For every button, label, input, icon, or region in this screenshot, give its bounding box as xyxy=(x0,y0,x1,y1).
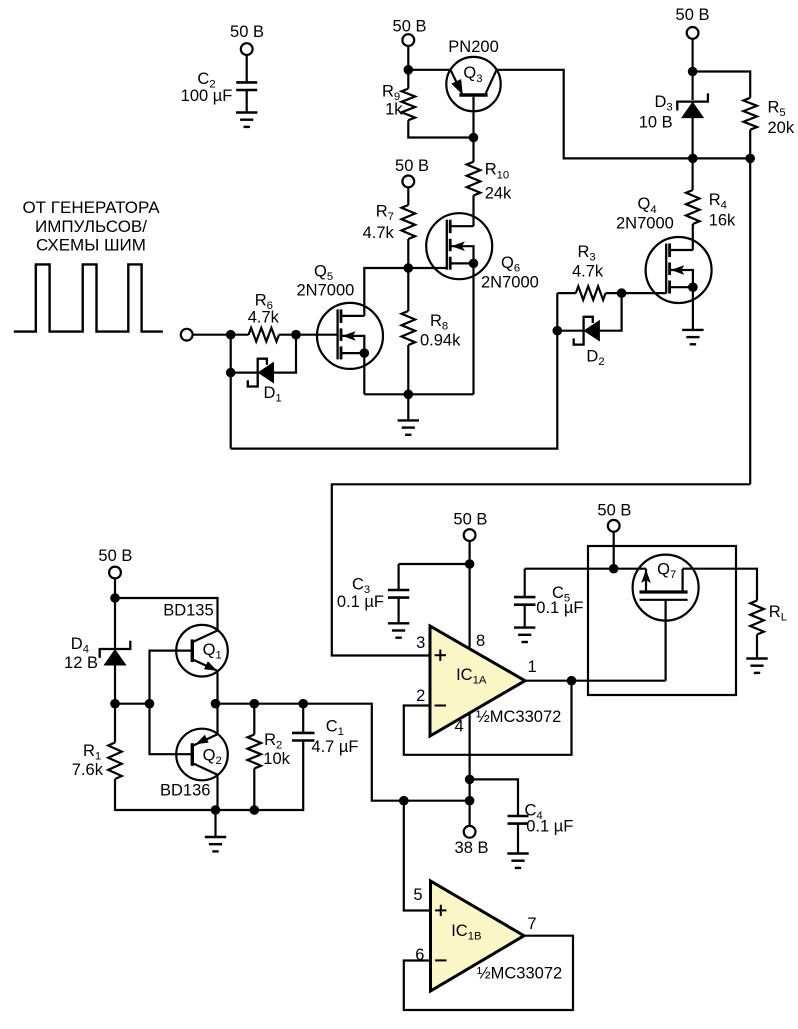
wire IC1A output to Q7 gate xyxy=(525,680,666,682)
capacitor C5 xyxy=(514,584,583,617)
wire D1 left lead xyxy=(231,372,257,374)
wire R2 bottom lead xyxy=(253,769,255,811)
node D2 left node xyxy=(553,326,563,336)
wire 50V terminal to D4 xyxy=(114,578,116,648)
svg-text:7: 7 xyxy=(527,915,536,933)
wire Q5 drain up to R7 node row xyxy=(364,268,447,316)
svg-text:50 В: 50 В xyxy=(676,6,710,24)
svg-text:8: 8 xyxy=(476,632,485,650)
node D1 left node xyxy=(226,368,236,378)
zener diode D4 12V xyxy=(64,635,131,672)
resistor R4 16k xyxy=(686,190,736,230)
svg-text:2N7000: 2N7000 xyxy=(481,274,539,292)
resistor R1 7.6k xyxy=(72,742,122,779)
wire Q3 base to R10 xyxy=(472,97,474,162)
svg-text:24k: 24k xyxy=(485,185,512,203)
svg-text:4.7k: 4.7k xyxy=(248,309,280,327)
node pin8/C3 node xyxy=(465,559,475,569)
resistor R6 4.7k xyxy=(248,291,280,341)
capacitor C2 xyxy=(181,70,258,105)
wire C5 top lead xyxy=(524,569,526,597)
transistor Q1 BD135 (NPN) xyxy=(163,602,228,677)
svg-text:1k: 1k xyxy=(385,101,403,119)
op-amp IC1A (1/2 MC33072) xyxy=(430,626,525,736)
transistor Q5 2N7000 (N-MOSFET) xyxy=(297,263,384,369)
zener diode D1 xyxy=(248,358,282,405)
svg-text:50 В: 50 В xyxy=(453,511,487,529)
node R5 bottom node xyxy=(745,154,755,164)
capacitor C1 xyxy=(292,718,359,757)
terminal input xyxy=(181,329,193,341)
node top-left rail node xyxy=(110,593,120,603)
resistor R8 0.94k xyxy=(402,311,462,350)
wire bottom rail Q5/Q6 xyxy=(364,393,473,395)
resistor R2 10k xyxy=(248,731,291,769)
svg-text:0.94k: 0.94k xyxy=(420,332,461,350)
node D4/R1/base node xyxy=(110,699,120,709)
svg-text:50 В: 50 В xyxy=(395,157,429,175)
wire 50V to Q7 source row xyxy=(613,531,615,568)
ground below Q5/Q6 rail xyxy=(398,420,419,434)
node R2 bottom node xyxy=(250,805,260,815)
node input/R6/D1 node xyxy=(226,330,236,340)
terminal 38V node terminal xyxy=(464,826,476,838)
wire R5 bottom to node row xyxy=(749,130,751,159)
wire C5 row to Q7 source xyxy=(525,568,646,570)
transistor Q7 (power MOSFET) xyxy=(633,555,699,681)
wire R7 to node row xyxy=(407,239,409,268)
transistor Q6 2N7000 (N-MOSFET) xyxy=(426,213,539,291)
node C5/Q7 source node xyxy=(609,564,619,574)
node output/feedback node xyxy=(567,676,577,686)
svg-text:2N7000: 2N7000 xyxy=(616,215,674,233)
svg-text:ИМПУЛЬСОВ/: ИМПУЛЬСОВ/ xyxy=(35,217,147,236)
node C1 top node xyxy=(298,699,308,709)
resistor R9 1k xyxy=(382,83,415,121)
node D3 anode node xyxy=(688,154,698,164)
wire R3 left lead xyxy=(557,292,576,294)
svg-text:50 В: 50 В xyxy=(597,501,631,519)
wire D2 left lead xyxy=(557,330,582,332)
wire Q6 source down to rail xyxy=(472,263,474,394)
ground below C5 xyxy=(514,628,535,642)
svg-text:1: 1 xyxy=(528,658,537,676)
wire 50V terminal through node to R9 xyxy=(407,46,409,89)
ground below C2 xyxy=(236,113,257,127)
svg-text:4.7k: 4.7k xyxy=(363,224,395,242)
wire bottom rail left xyxy=(115,741,303,811)
zener diode D2 xyxy=(574,316,605,368)
wire rail to IC1A noninverting input xyxy=(332,484,750,655)
svg-text:3: 3 xyxy=(416,634,425,652)
svg-text:50 В: 50 В xyxy=(393,18,427,36)
svg-text:100 µF: 100 µF xyxy=(181,87,233,105)
wire pin 4 column xyxy=(469,713,471,826)
svg-text:38 В: 38 В xyxy=(455,839,489,857)
resistor R5 20k xyxy=(743,98,794,137)
terminal 50V supply (C2) xyxy=(241,43,253,55)
node R3/D2/Q4-gate node xyxy=(617,288,627,298)
svg-text:50 В: 50 В xyxy=(98,547,132,565)
wire R7 terminal to zigzag xyxy=(407,187,409,205)
node pin4/C4 node xyxy=(465,775,475,785)
wire pin4 node to C4 xyxy=(470,779,518,816)
wire bottom rail to ground xyxy=(214,810,216,837)
wire R8 to bottom rail xyxy=(407,345,409,394)
svg-text:4: 4 xyxy=(455,718,464,736)
wire C3 top lead xyxy=(398,564,400,590)
ground below Q4 xyxy=(682,330,703,344)
node Q3 base / R9 junction xyxy=(469,133,479,143)
wire IC1B feedback loop xyxy=(404,936,573,1010)
svg-text:5: 5 xyxy=(413,886,422,904)
wire D1 right to input row xyxy=(274,335,297,373)
resistor R10 24k xyxy=(467,161,512,203)
wire C5 to ground xyxy=(524,605,526,628)
resistor R3 4.7k xyxy=(572,243,606,300)
PWM square wave symbol xyxy=(14,264,163,331)
svg-text:10 В: 10 В xyxy=(639,114,673,132)
wire node row to R8 xyxy=(407,268,409,311)
ground below bias network xyxy=(205,837,226,851)
node rail/ground node xyxy=(404,390,414,400)
wire C1 top lead xyxy=(302,704,304,733)
transistor Q2 BD136 (PNP) xyxy=(160,729,228,800)
svg-text:2: 2 xyxy=(416,687,425,705)
wire rail to Q1 collector xyxy=(115,598,218,631)
node emitters junction xyxy=(211,699,221,709)
wire long input run to D2 xyxy=(231,293,558,449)
svg-text:0.1 µF: 0.1 µF xyxy=(337,593,384,611)
wire C3 row xyxy=(399,563,470,565)
node 50V/R9/Q3 junction xyxy=(404,65,414,75)
terminal 50V supply (IC1A pin 8) xyxy=(464,529,476,541)
wire C4 to ground xyxy=(517,824,519,854)
wire node to transistor bases xyxy=(115,703,150,705)
svg-text:½MC33072: ½MC33072 xyxy=(476,708,561,726)
ground below C3 xyxy=(388,623,409,637)
wire Q4 source to ground xyxy=(692,287,694,330)
node bias/IC1B node xyxy=(399,796,409,806)
node R6/Q5 gate node xyxy=(291,330,301,340)
transistor Q4 2N7000 (N-MOSFET) xyxy=(616,195,712,303)
wire right rail down xyxy=(749,158,751,484)
node 38V node xyxy=(465,796,475,806)
wire 50V terminal to D3 cathode xyxy=(691,39,693,101)
wire IC1A feedback to inverting input xyxy=(404,681,572,755)
ground below RL xyxy=(746,659,767,673)
svg-text:½MC33072: ½MC33072 xyxy=(477,965,562,983)
wire Q2 collector to bottom rail xyxy=(216,775,218,810)
svg-text:BD135: BD135 xyxy=(163,602,213,620)
zener diode D3 10V xyxy=(639,93,709,132)
wire D3 anode to R4 xyxy=(691,117,693,190)
wire bias rail right xyxy=(216,704,470,801)
wire base column Q1/Q2 xyxy=(150,651,193,755)
svg-text:4.7 µF: 4.7 µF xyxy=(311,738,358,756)
wire junction to R5 top xyxy=(693,72,751,98)
wire R10 to Q6 drain xyxy=(472,196,474,227)
terminal 50V supply (Q3/R9) xyxy=(402,34,414,46)
terminal 50V supply (D3/R5) xyxy=(687,27,699,39)
wire R4 to Q4 drain xyxy=(692,224,694,250)
svg-text:50 В: 50 В xyxy=(230,23,264,41)
wire D2 right lead up xyxy=(599,293,621,331)
wire RL to ground xyxy=(756,635,758,659)
wire 50V terminal to C2 xyxy=(246,55,248,83)
capacitor C4 xyxy=(508,802,574,836)
svg-text:4.7k: 4.7k xyxy=(572,263,604,281)
node Q2 collector/gnd node xyxy=(211,805,221,815)
resistor RL load xyxy=(750,601,787,635)
wire node to Q3 emitter xyxy=(408,69,450,71)
svg-text:12 В: 12 В xyxy=(64,654,98,672)
svg-text:0.1 µF: 0.1 µF xyxy=(536,599,583,617)
wire Q7 drain to RL xyxy=(683,569,757,601)
node bases junction xyxy=(145,699,155,709)
resistor R7 4.7k xyxy=(363,202,416,242)
transistor Q3 (PNP PN200, base down) xyxy=(446,38,500,112)
wire 38V node to IC1B noninverting input xyxy=(404,801,431,911)
wire R3 to Q4 gate xyxy=(606,292,667,294)
node D3/R5 top junction xyxy=(688,67,698,77)
svg-text:ОТ ГЕНЕРАТОРА: ОТ ГЕНЕРАТОРА xyxy=(22,198,160,217)
wire D4 anode to R1 xyxy=(114,665,116,742)
node R2 top node xyxy=(250,699,260,709)
wire 50V to pin 8 xyxy=(469,541,471,648)
svg-text:2N7000: 2N7000 xyxy=(297,281,355,299)
ground below C4 xyxy=(507,854,528,868)
capacitor C3 xyxy=(337,576,409,612)
terminal 50V supply (left) xyxy=(109,567,121,579)
svg-text:PN200: PN200 xyxy=(448,38,498,56)
svg-text:16k: 16k xyxy=(709,212,736,230)
terminal 50V supply (R7) xyxy=(402,176,414,188)
wire Q2 emitter up to node xyxy=(216,704,218,734)
wire Q5 source down to rail xyxy=(363,353,365,394)
wire R9 bottom to Q3 base node xyxy=(408,120,473,137)
op-amp IC1B (1/2 MC33072) xyxy=(431,881,525,991)
svg-text:0.1 µF: 0.1 µF xyxy=(526,818,573,836)
Q7 module box xyxy=(588,546,736,695)
wire R6 to Q5 gate xyxy=(279,334,338,336)
svg-text:СХЕМЫ ШИМ: СХЕМЫ ШИМ xyxy=(36,235,146,254)
wire C2 to ground xyxy=(246,90,248,113)
svg-text:BD136: BD136 xyxy=(160,782,210,800)
svg-text:20k: 20k xyxy=(768,119,795,137)
wire Q3 collector to D3/R5 node xyxy=(497,70,751,159)
wire input node down to D1 and long run xyxy=(230,335,232,449)
wire rail to ground xyxy=(407,394,409,420)
svg-text:7.6k: 7.6k xyxy=(72,761,104,779)
svg-text:10k: 10k xyxy=(263,750,290,768)
node R7/R8/Q6-gate node xyxy=(404,263,414,273)
wire input terminal to R6 xyxy=(192,334,248,336)
wire Q1 emitter down to node xyxy=(216,671,218,704)
wire R2 top lead xyxy=(253,704,255,735)
terminal 50V supply (Q7) xyxy=(608,520,620,532)
wire C3 to ground xyxy=(398,598,400,624)
